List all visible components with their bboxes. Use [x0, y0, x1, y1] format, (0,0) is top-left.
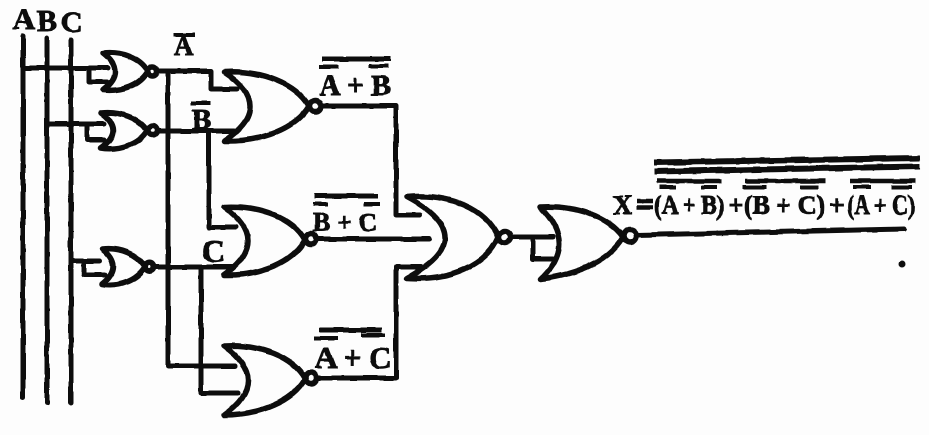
overbar C in expression group 3 [892, 185, 912, 189]
group overbar of (A+C) [850, 179, 915, 184]
outer overbar of B+C [315, 194, 378, 199]
overbar B in expression group 2 [743, 185, 766, 189]
wire U1 tied second input [89, 68, 107, 82]
svg-text:B + C: B + C [313, 208, 377, 237]
wire Abar net from U1 output to U4 top input [157, 71, 237, 89]
node B input rail [45, 38, 50, 403]
wire Cbar net from U3 output to U5 bottom input [154, 265, 233, 270]
equals sign lower bar [637, 205, 653, 210]
wire U7 output to U8 input [511, 235, 553, 240]
wire U2 tied second input [87, 124, 104, 140]
overbar A in expression group 3 [853, 185, 871, 189]
svg-text:C: C [61, 6, 83, 39]
svg-text:(A + C): (A + C) [847, 190, 915, 220]
wire U8 tied second input [533, 237, 553, 259]
node A input rail [21, 36, 26, 398]
wire U3 tied second input [84, 261, 105, 275]
group overbar of (A+B) [657, 179, 722, 184]
NOR gate U6 (Abar+Cbar) [224, 346, 305, 415]
wire X output line [637, 229, 904, 235]
overbar of label Abar [173, 33, 195, 37]
overbar C in expression group 2 [800, 185, 819, 189]
expression outer overbar upper [654, 158, 920, 163]
wire Abar vertical branch to U6 top input [168, 71, 235, 366]
svg-text:B: B [37, 5, 57, 38]
NOR inverter U1 (A to Abar) [103, 53, 148, 91]
wire Bbar net from U2 output to U4 bottom input [157, 129, 234, 134]
dot at end of output [899, 261, 906, 268]
overbar C in B+C [364, 202, 380, 206]
wire B to gate U2 input [47, 122, 104, 127]
overbar C in A+C [361, 333, 385, 337]
svg-text:+: + [829, 190, 844, 220]
svg-text:B: B [192, 104, 211, 136]
overbar B in A+B [368, 64, 388, 68]
NOR gate U7 (3-input sum) [407, 196, 498, 278]
expression outer overbar lower [654, 167, 920, 172]
group overbar of (B+C) [745, 179, 825, 184]
node C input rail [69, 40, 74, 403]
svg-text:(B + C): (B + C) [744, 190, 825, 220]
NOR inverter U8 (output buffer) [540, 207, 623, 279]
wire U6 output to U7 bottom input [317, 267, 421, 378]
svg-text:X: X [613, 190, 633, 220]
svg-text:C: C [202, 233, 225, 269]
overbar B in B+C [313, 202, 328, 206]
NOR inverter U2 (B to Bbar) [101, 113, 147, 149]
overbar of label Bbar [191, 101, 211, 105]
overbar B in expression group 1 [701, 185, 717, 189]
wire Cbar vertical branch to U6 bottom input [201, 267, 238, 393]
svg-text:A + C: A + C [315, 340, 391, 375]
wire U5 output to U7 middle input [317, 237, 429, 242]
outer overbar of A+C [319, 328, 382, 333]
wire A to gate U1 input [23, 66, 108, 71]
wire C to gate U3 input [71, 259, 100, 264]
overbar A in A+C [314, 336, 338, 340]
NOR gate U5 (Bbar+Cbar) [224, 207, 305, 275]
NOR gate U4 (Abar+Bbar) [224, 72, 309, 141]
NOR inverter U3 (C to Cbar) [102, 249, 145, 285]
wire U4 output to U7 top input [320, 106, 420, 215]
outer overbar of A+B [322, 57, 391, 62]
svg-text:A: A [13, 3, 35, 36]
svg-text:A + B: A + B [319, 69, 391, 102]
equals sign upper bar [637, 199, 653, 204]
overbar A in expression group 1 [660, 185, 676, 189]
overbar A in A+B [319, 65, 339, 69]
svg-text:(A + B): (A + B) [654, 190, 724, 220]
svg-text:+: + [728, 190, 743, 220]
wire Bbar vertical branch to U5 top input [209, 131, 236, 227]
